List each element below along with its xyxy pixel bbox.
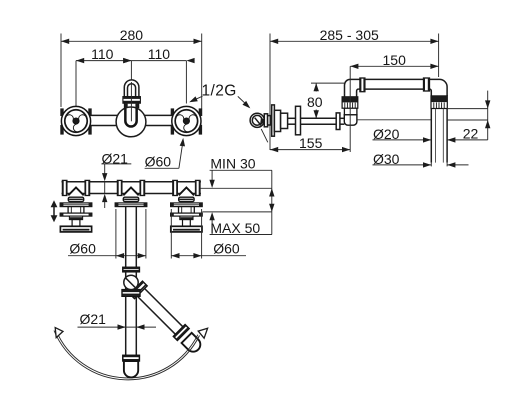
dimension MAX 50 [202,212,272,235]
tube collar 3 [123,355,140,361]
top pipe [365,78,424,80]
tube collar 1 [123,267,140,272]
dimension 150 [350,64,438,69]
inlet nut [264,114,267,127]
body between plates [274,110,280,131]
SIDE VIEW [250,34,490,168]
svg-text:110: 110 [148,46,171,62]
body U outlet [125,108,136,126]
svg-text:1/2G: 1/2G [202,83,237,100]
dimension Ø60 right [171,209,246,259]
leader to inlet from below [257,118,267,143]
valve stack at x=76 [60,207,92,232]
spout dome outer [124,80,139,97]
wall pipe [62,182,201,194]
svg-text:280: 280 [120,27,144,43]
centerline through body [130,82,132,121]
FRONT VIEW [60,34,253,169]
dimension Ø60 left [68,209,146,259]
svg-text:Ø60: Ø60 [145,154,172,170]
dimension Ø20 / 22 line [373,137,488,142]
pipe segment 2 [301,117,337,119]
upper left elbow [345,79,351,93]
dimension Ø21 bottom [78,324,157,329]
valve stack at x=186.4 [170,207,202,232]
centerline [130,61,132,130]
svg-text:285 - 305: 285 - 305 [320,27,379,43]
leader 1/2G to side-view inlet [238,96,252,110]
riser pipe [344,94,346,97]
wall plate B [296,106,301,135]
pipe segment 1 [288,117,296,119]
diagonal tube wall across joint [125,277,139,291]
tube collar 2 [122,290,140,297]
swing arrow left [55,328,63,338]
right valve body behind wheel [171,108,174,134]
dimension 110 left [76,58,131,107]
valve collar [336,113,340,130]
right handwheel [172,106,201,135]
left valve body behind wheel [60,108,63,134]
svg-text:80: 80 [307,94,323,110]
dimension 285-305 [270,34,439,151]
swing arc inner [56,330,198,378]
spout collar nut [124,103,138,107]
svg-text:155: 155 [299,135,323,151]
upper right elbow [430,79,448,96]
svg-text:22: 22 [463,126,479,142]
dimension MIN 30 [200,170,272,188]
dimension 22 vertical [447,91,490,140]
dimension Ø21 leader (top) [102,164,107,208]
swing arc outer [54,331,200,380]
swivel joint ball [124,275,138,289]
spout dome inner [128,84,136,97]
T fitting at x=76 [60,180,92,207]
tube end cap [124,361,138,377]
svg-text:Ø60: Ø60 [213,241,240,257]
svg-text:Ø21: Ø21 [80,311,107,327]
svg-text:MIN 30: MIN 30 [210,156,255,172]
top pipe left segment [350,78,360,80]
top pipe collar right [423,78,429,92]
wall inlet circle [250,113,264,127]
dimension 80 [311,83,344,118]
spout collar ribbed [123,97,140,104]
svg-text:Ø21: Ø21 [102,150,129,166]
svg-text:Ø30: Ø30 [373,151,400,167]
leader 1/2G to right wheel [188,96,202,105]
T fitting at x=186.4 [170,180,202,207]
left handwheel [61,106,90,135]
down pipe [431,109,447,163]
dimension 155 [270,147,350,152]
svg-text:150: 150 [383,52,407,68]
dimension 110 right [123,58,194,104]
PLAN VIEW [51,164,275,380]
svg-text:MAX 50: MAX 50 [210,220,260,236]
T fittings with chevrons (left, center, right) [60,180,203,232]
valve knurled nut [342,97,358,108]
tube below joint [126,296,137,355]
connecting pipe [60,115,204,125]
dimension Ø30 line [373,162,469,167]
riser centerline extension [349,66,351,152]
leader line Ø60 label to right wheel [145,138,186,169]
svg-text:Ø20: Ø20 [373,126,400,142]
vertical gap dimension line [269,170,274,234]
down pipe knurled nut [431,96,447,109]
pipe stub to elbow [340,117,344,119]
inlet tick [255,118,261,125]
svg-text:Ø60: Ø60 [69,241,96,257]
leader line Ø21 label [101,163,131,165]
down pipe extension lines [430,163,432,167]
swing arrow right [198,328,207,338]
spout tube vertical [126,207,137,268]
tube walls behind joint [126,272,137,290]
dimension 280 [61,34,202,123]
body circle [116,107,146,137]
wall plate A [272,105,275,136]
diagonal swung spout [130,281,205,356]
lower elbow to supply pipe [344,115,357,126]
T fitting at x=131 [115,180,147,207]
top pipe collar left [360,78,365,92]
extension line to down pipe [357,119,431,121]
riser lower block [344,108,357,115]
adjustment double arrow [51,200,58,222]
svg-text:110: 110 [91,46,114,62]
